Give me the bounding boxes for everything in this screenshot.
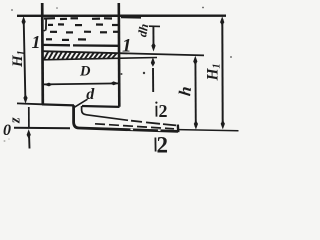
h dimension line: [194, 59, 196, 127]
section 2 lower tick: [154, 138, 156, 152]
dh upper arrow: [152, 26, 154, 47]
exit level line to the right: [179, 130, 239, 131]
scan speck right mid: [230, 56, 232, 58]
scan speck near D arrow: [121, 73, 123, 75]
scan speck near dh arrow: [143, 72, 145, 74]
dh lower arrow: [152, 68, 154, 92]
svg-text:1: 1: [122, 36, 132, 57]
H right dimension line: [221, 19, 223, 126]
pipe outer elbow and bottom wall: [74, 105, 178, 131]
svg-text:1: 1: [32, 32, 41, 52]
water dashes row D: [46, 38, 86, 41]
tank bottom right segment: [82, 105, 120, 108]
faint speckle bottom left corner: [4, 140, 6, 142]
pipe end cap: [177, 125, 180, 133]
tank bottom extension line left: [17, 102, 42, 105]
hatched slice dh band: top line extends right as level line: [43, 51, 204, 55]
d leader line: [74, 99, 87, 107]
pipe inner elbow and top wall solid part: [82, 106, 128, 120]
svg-text:2: 2: [157, 133, 169, 154]
water dashes row B: [48, 23, 118, 26]
z lower outside arrow: [28, 133, 31, 149]
water dashes row C: [50, 31, 118, 34]
dh upper tick: [149, 25, 160, 27]
svg-text:0: 0: [3, 122, 11, 139]
bottom wall scan nick 1: [131, 128, 134, 130]
section 2 upper tick: [155, 106, 157, 117]
water dashes row E dense: [43, 44, 118, 47]
svg-text:d: d: [86, 86, 95, 103]
svg-text:D: D: [79, 64, 91, 80]
svg-text:2: 2: [159, 101, 168, 121]
tank right wall: [118, 3, 121, 107]
section 1 left tick: [45, 18, 47, 30]
svg-text:dh: dh: [135, 23, 151, 38]
pipe top wall dashed continuation: [131, 121, 176, 126]
scan speck top right: [202, 7, 204, 9]
H1 left dimension line: [24, 20, 26, 100]
bottom wall scan nick 2: [158, 129, 161, 131]
top surface reference line 1-1: [17, 14, 226, 17]
section 1 left tick serif: [44, 30, 47, 31]
scan speck above left 1: [56, 7, 58, 9]
D dimension line with inward arrowheads: [44, 83, 119, 84]
scan speck top left: [11, 9, 13, 11]
tank left wall: [41, 3, 44, 105]
surface line thick overlap right of wall: [121, 16, 141, 18]
tank bottom left segment: [42, 104, 74, 105]
hatch strokes of dh slice: [44, 52, 116, 60]
pipe axis dashed centerline: [95, 124, 174, 129]
hatched slice band bottom line: [43, 58, 157, 60]
z dimension line: [28, 107, 30, 128]
water dashes row A: [44, 17, 112, 20]
datum line 0-0 at left: [14, 127, 70, 130]
